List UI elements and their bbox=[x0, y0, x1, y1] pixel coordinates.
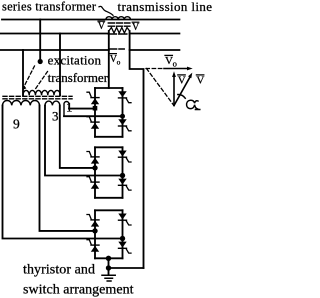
label: transmission line bbox=[118, 0, 213, 14]
label V-bar left of series transformer bbox=[98, 21, 106, 32]
wire: tap from phase 1 down to dot bbox=[39, 20, 41, 60]
wire: group1 left leg bbox=[94, 88, 96, 137]
thyristor left-top (up) bbox=[87, 152, 91, 157]
thyristor switch group 1 bbox=[87, 88, 131, 137]
thyristor left-bottom (up) bbox=[87, 177, 91, 182]
label V-bar right of series transformer bbox=[132, 22, 140, 33]
thyristor right-bottom (down) bbox=[118, 119, 126, 125]
wire: group2 top rail bbox=[95, 146, 123, 148]
wire: group3 top rail bbox=[95, 209, 123, 211]
thyristor right-bottom (down) bbox=[118, 179, 126, 185]
node: return junction dot bbox=[106, 265, 111, 270]
wire: return to right rail bbox=[109, 267, 144, 269]
wire: group2 right leg bbox=[122, 147, 124, 198]
label V-bar (vertical phasor) bbox=[178, 75, 186, 87]
svg-text:V: V bbox=[98, 21, 106, 32]
node A3 bbox=[92, 228, 97, 233]
thyristor right-bottom (down) bbox=[118, 242, 126, 248]
thyristor left-top (up) bbox=[87, 92, 91, 97]
wire: winding-1 left side to group1 node B bbox=[64, 115, 123, 117]
wire: phase line 2 (dashed behind series secondary) bbox=[0, 33, 179, 35]
wire: winding-3 right side down and across to group2 node A bbox=[60, 106, 95, 168]
svg-text:V: V bbox=[132, 22, 140, 33]
svg-text:3: 3 bbox=[52, 108, 59, 123]
svg-text:1: 1 bbox=[66, 100, 73, 115]
wire: group1 right leg bbox=[122, 88, 124, 137]
svg-text:transformer: transformer bbox=[48, 70, 109, 85]
excitation transformer primary winding bumps bbox=[23, 90, 60, 95]
node B3 bbox=[120, 236, 125, 241]
svg-text:excitation: excitation bbox=[48, 52, 102, 67]
svg-text:V: V bbox=[196, 75, 204, 87]
wire: phase line 3 (dashed behind series secondary) bbox=[0, 49, 179, 51]
wire: series secondary left lead down to group 1 bbox=[108, 31, 110, 88]
thyristor switch group 3 bbox=[87, 210, 131, 258]
node B2 bbox=[120, 173, 125, 178]
wire: phase line 1 bbox=[2, 19, 179, 21]
thyristor right-top (down) bbox=[118, 151, 126, 157]
thyristor left-bottom (up) bbox=[87, 240, 91, 245]
svg-text:V: V bbox=[178, 75, 186, 87]
svg-text:9: 9 bbox=[13, 117, 20, 132]
label alpha bbox=[187, 100, 200, 109]
wire: group2 bottom rail bbox=[95, 197, 123, 199]
winding 1 loop bbox=[64, 102, 69, 117]
winding 3 bumps bbox=[45, 101, 60, 105]
series transformer core hatch dashes bbox=[108, 23, 130, 26]
wire: stub from group3 bottom rail to return node bbox=[108, 258, 110, 275]
node A1 (square junction) bbox=[93, 106, 98, 111]
node B1 bbox=[120, 114, 125, 119]
svg-text:switch arrangement: switch arrangement bbox=[23, 283, 134, 298]
label V-bar (slanted phasor) bbox=[196, 75, 204, 87]
wire: group3 right leg bbox=[122, 210, 124, 258]
node: dot on group3 bottom rail bbox=[106, 256, 111, 261]
wire: winding-9 left side down and across to group3 node B bbox=[3, 106, 123, 239]
node A2 bbox=[92, 165, 97, 170]
wire: group2 left leg bbox=[94, 147, 96, 198]
wire: tap from phase 3 down to excitation primary left bbox=[22, 50, 24, 95]
phasor Vo arrow bbox=[164, 68, 188, 70]
phasor V vertical arrow bbox=[173, 77, 175, 106]
svg-text:o: o bbox=[117, 58, 121, 67]
wire: group3 left leg bbox=[94, 210, 96, 258]
wire: winding-9 right side down and across to group3 node A bbox=[40, 106, 96, 231]
angle arc alpha bbox=[178, 94, 186, 98]
thyristor right-top (down) bbox=[118, 91, 126, 97]
excitation transformer core hatch (two dashed rows) bbox=[3, 95, 72, 97]
wire: group1 top rail bbox=[95, 87, 123, 89]
leader: dashed wide arrow to excitation transformer bbox=[24, 66, 35, 88]
wire: tap from phase 2 down to excitation primary right bbox=[59, 34, 61, 96]
wire: group3 bottom rail bbox=[95, 257, 123, 259]
dashed construction horizontal bbox=[146, 68, 164, 70]
thyristor switch group 2 bbox=[87, 147, 131, 198]
wire: group1 bottom rail bbox=[95, 136, 123, 138]
phasor diagram bbox=[146, 55, 204, 110]
label: 1 bbox=[66, 100, 73, 115]
label: excitation bbox=[48, 52, 102, 67]
label Vo-bar under series transformer bbox=[110, 54, 121, 66]
wire: series secondary right lead with jog to right rail bbox=[130, 31, 144, 268]
winding 9 bumps bbox=[3, 100, 40, 105]
node: dot at excitation feed bbox=[38, 59, 43, 64]
phasor V slanted arrow bbox=[174, 77, 190, 106]
svg-text:series transformer: series transformer bbox=[2, 0, 97, 14]
label: 3 bbox=[52, 108, 59, 123]
label Vo-bar (phasor) bbox=[165, 55, 177, 69]
dashed construction diagonal bbox=[147, 69, 174, 106]
label: switch arrangement bbox=[23, 283, 134, 298]
series transformer T1 primary winding bumps bbox=[106, 17, 130, 20]
svg-text:thyristor and: thyristor and bbox=[23, 263, 95, 278]
ground bbox=[102, 275, 115, 281]
svg-text:o: o bbox=[173, 59, 177, 69]
leader curve from series transformer label to winding bbox=[99, 6, 113, 15]
series transformer secondary zigzag winding bbox=[109, 28, 130, 34]
wire: winding-3 left side down and across to group2 node B bbox=[45, 106, 123, 176]
label: thyristor and bbox=[23, 263, 95, 278]
svg-text:transmission line: transmission line bbox=[118, 0, 213, 14]
label: transformer (2nd line) bbox=[48, 70, 109, 85]
thyristor left-bottom (up) bbox=[87, 117, 91, 122]
thyristor left-top (up) bbox=[87, 215, 91, 220]
label: series transformer bbox=[2, 0, 97, 14]
wire: winding-1 right side to group1 node A bbox=[69, 108, 95, 110]
label: 9 bbox=[13, 117, 20, 132]
thyristor right-top (down) bbox=[118, 214, 126, 220]
